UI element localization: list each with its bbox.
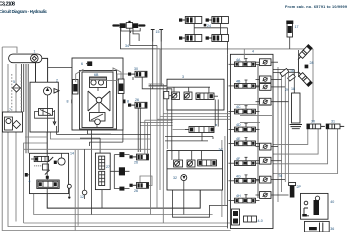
wire cyl30 drop2 [142,77,167,89]
accumulator right [113,68,124,94]
junction 28 [305,61,314,68]
steering small valve [43,164,50,175]
svg-text:17: 17 [295,25,299,29]
svg-text:T6: T6 [278,174,282,178]
svg-text:4E: 4E [236,137,241,141]
top valve assembly 34 [112,21,145,48]
diagonal cylinder 18 [296,70,312,87]
wire mid-left grays [50,132,150,139]
compensator c7 [260,192,272,199]
steering valve top [31,156,53,166]
box3 valve b [184,92,192,100]
svg-text:4D: 4D [236,123,241,127]
breather box 36 [305,221,335,232]
svg-text:2: 2 [56,79,58,83]
port 8 left [67,100,75,104]
wire cyl top pair [124,155,129,189]
wire center verticals [91,130,93,215]
compensator c1 [260,76,272,83]
cylinder 31 [326,120,344,129]
steering unit box [30,152,75,194]
steering motor circle [54,153,65,165]
filler unit box 40 [301,193,335,219]
cylinder 30 [307,120,325,129]
block top checkvalves [90,73,107,88]
svg-text:36: 36 [330,227,334,231]
svg-text:4B: 4B [236,80,241,84]
valve 4B [229,80,260,89]
wire block drain [57,126,151,134]
wire bundle extras [144,120,146,154]
wire hoses to bundle [149,83,164,85]
wire gauge12 drop [84,149,86,190]
2C valve a [174,160,183,167]
breather 17 [286,21,298,49]
svg-text:4: 4 [29,180,31,184]
svg-text:6B: 6B [94,73,99,77]
wire bank to diagonal cylinders [273,69,294,71]
reservoir 29 [285,88,302,129]
valve bank outer box 4 [230,50,273,229]
pump box 7 [3,108,23,132]
block lower valve [90,113,106,125]
diagonal cylinder 16 [296,45,312,62]
valve 4D [229,123,260,132]
wire right of bank verticals [277,67,279,202]
compensator c5 [260,157,272,164]
2C gauge 32 [173,175,187,215]
wire comp stubs [256,61,260,63]
svg-text:7: 7 [9,108,11,112]
svg-text:32: 32 [173,176,177,180]
block X crossover [88,91,110,111]
wire cyl bus 24 [194,24,227,55]
accumulator left [73,70,84,95]
svg-text:1: 1 [34,50,36,54]
gauge 12a [67,184,71,198]
compensator c3 [260,98,272,105]
2C valve arrows [175,161,193,166]
tilt valve b [288,74,296,81]
port T2 [25,173,30,177]
cylinder 26 [130,154,149,164]
box3 valve c striped [196,93,218,100]
valve 4E [229,137,260,146]
box3 valve a [168,92,180,100]
wire manifold feed [24,148,151,150]
svg-text:4G: 4G [236,174,241,178]
pump box 2 [30,79,59,133]
cylinder 30 [128,67,147,77]
compensator c6 [260,176,272,183]
svg-text:2C: 2C [219,148,224,152]
wire diag links [298,59,300,73]
wire box3 to valve row [215,100,218,127]
svg-text:34: 34 [125,44,129,48]
wire comp out stubs [271,61,278,63]
svg-text:18: 18 [291,87,295,91]
svg-text:24: 24 [207,24,211,28]
compensator c4 [260,143,272,150]
valve 4G [229,174,260,183]
svg-text:8: 8 [127,100,129,104]
solenoid box 27 [95,153,110,190]
small x-valve left of box3 [164,91,169,98]
svg-text:40: 40 [330,200,334,204]
cylinder 23 [206,17,229,24]
tilt valve a [280,68,289,76]
svg-text:26: 26 [134,161,138,165]
svg-text:12: 12 [80,195,84,199]
svg-text:8: 8 [67,100,69,104]
node 24 [204,24,211,28]
dashed filter enclosure [12,74,21,112]
valve 4H [229,194,260,203]
valve 4A [229,58,260,67]
wire block bottom steps [80,130,123,153]
steering lower valve [29,180,60,189]
connector squares [110,152,125,191]
wire central vertical bundle [150,84,152,215]
svg-text:28: 28 [310,61,314,65]
port right [122,100,129,104]
compensator c2 [260,84,272,91]
svg-text:From cab. no. 65791 to 10/9999: From cab. no. 65791 to 10/9999 [285,5,347,9]
wire trunk x226 down [227,54,229,228]
wire bottom-center [173,190,228,217]
bank end valve 4-0 [244,216,263,223]
trunk tick [46,176,49,179]
wire bank internal rail [257,64,259,198]
svg-text:14: 14 [70,152,74,156]
wire pump pressure trunk [38,58,48,87]
wire capsule outlet [35,62,37,82]
cylinder 26 [128,98,147,108]
wire right rail 4 [288,73,290,183]
wire left filter line [15,64,17,85]
svg-text:4: 4 [252,50,254,54]
wire capsule feeds [21,64,23,112]
svg-text:C3, 2108: C3, 2108 [0,2,15,8]
svg-text:16: 16 [290,69,294,73]
wire solenoid drop [101,190,103,209]
gauge 12 [80,190,87,199]
wire box3 top manifold [149,86,210,93]
filter 5 [13,80,21,92]
wire cyl30 drop [132,77,134,80]
valve row 21 [185,123,217,133]
wire to cyl mid [140,176,152,186]
wire left vertical bus [2,47,230,231]
valve box 3 [167,75,224,110]
tank capsule 1 [9,50,42,63]
test ports 15 [151,30,163,42]
wire cyl 30/31 loops [273,129,308,145]
svg-text:3: 3 [182,75,184,79]
wire top assembly drops [121,26,161,49]
cylinder 24 [179,35,202,42]
2C valve b [187,160,195,167]
svg-text:5: 5 [13,80,15,84]
wire bank inner crossers [234,105,272,123]
svg-text:4-0: 4-0 [258,219,263,223]
cylinder 25 [206,35,229,42]
svg-text:2P: 2P [297,185,302,189]
svg-text:15: 15 [156,30,160,34]
bank relief column [232,209,240,225]
wire top bus right [160,48,313,50]
valve 4F [229,157,260,166]
block pilot square 6 [81,61,92,66]
wire hose box1 to cyl30 [100,74,128,80]
cylinder 26 [130,183,149,194]
svg-text:30: 30 [311,120,315,124]
svg-text:27: 27 [106,165,110,169]
cylinder 22 [179,17,202,24]
wire bank feed [243,49,245,60]
svg-text:4C: 4C [236,105,241,109]
svg-text:Circuit Diagram - Hydraulic: Circuit Diagram - Hydraulic [0,9,48,14]
plug 2P [289,183,302,198]
valve 4C [229,105,260,114]
compensator c0 [260,59,272,66]
svg-text:4H: 4H [236,194,241,198]
central valve block outer [72,58,123,130]
svg-text:6: 6 [81,62,83,66]
svg-text:26: 26 [135,98,139,102]
wire cyl26 bundle [140,121,173,123]
2C striped valve [198,160,217,166]
svg-text:4A: 4A [236,58,241,62]
svg-text:30: 30 [134,67,138,71]
svg-text:31: 31 [331,120,335,124]
svg-text:26: 26 [134,189,138,193]
wire pin drops [153,42,162,89]
wire central block internals [97,88,99,128]
wire trunk through steering box [46,153,48,193]
manifold box 2C outer [167,148,223,190]
